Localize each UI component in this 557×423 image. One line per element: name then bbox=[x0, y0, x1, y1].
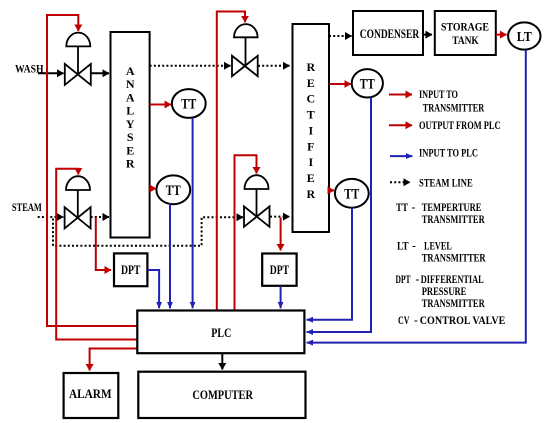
wire DPT2 to PLC blue bbox=[280, 286, 282, 309]
svg-text:-: - bbox=[414, 315, 418, 327]
control valve CV1 (wash) bbox=[65, 33, 91, 85]
svg-text:TRANSMITTER: TRANSMITTER bbox=[422, 214, 486, 226]
wire PLC output to CV4 red bbox=[235, 155, 257, 310]
transmitter TT4 bbox=[335, 179, 369, 208]
svg-text:DIFFERENTIAL: DIFFERENTIAL bbox=[421, 274, 484, 286]
svg-text:INPUT TO: INPUT TO bbox=[419, 89, 458, 101]
control valve CV4 (steam to rectifier) bbox=[244, 175, 270, 227]
transmitter TT2 bbox=[156, 175, 190, 204]
svg-text:TRANSMITTER: TRANSMITTER bbox=[422, 252, 486, 264]
svg-text:COMPUTER: COMPUTER bbox=[192, 388, 253, 402]
svg-text:R: R bbox=[306, 60, 315, 74]
wire PLC output to alarm red bbox=[90, 349, 138, 371]
wire CV3 to rectifier dotted bbox=[258, 65, 290, 67]
column RECTIFIER bbox=[293, 24, 330, 232]
svg-text:PLC: PLC bbox=[211, 325, 231, 340]
svg-text:STEAM: STEAM bbox=[12, 200, 42, 214]
legend arrow steam line dotted bbox=[390, 181, 410, 183]
svg-text:E: E bbox=[126, 143, 134, 157]
wire valve CV1 to analyser bbox=[91, 72, 109, 74]
svg-text:TT: TT bbox=[396, 202, 408, 214]
box DPT2 bbox=[262, 254, 296, 286]
svg-text:I: I bbox=[308, 123, 313, 137]
svg-text:A: A bbox=[126, 64, 135, 78]
svg-text:Y: Y bbox=[126, 117, 135, 131]
transmitter LT bbox=[508, 22, 540, 49]
svg-text:LEVEL: LEVEL bbox=[424, 240, 452, 252]
svg-text:LT: LT bbox=[397, 240, 409, 252]
svg-text:L: L bbox=[126, 104, 134, 118]
svg-text:E: E bbox=[307, 76, 315, 90]
box ALARM bbox=[64, 373, 119, 418]
svg-text:TEMPERTURE: TEMPERTURE bbox=[422, 202, 482, 214]
transmitter TT3 bbox=[352, 69, 383, 97]
svg-text:I: I bbox=[308, 155, 313, 169]
legend arrow input to PLC blue bbox=[390, 155, 412, 157]
svg-text:DPT: DPT bbox=[270, 263, 290, 277]
wire wash feed line bbox=[38, 72, 64, 74]
control valve CV3 bbox=[232, 24, 258, 76]
svg-text:R: R bbox=[306, 187, 315, 201]
wire PLC to computer bbox=[221, 353, 223, 369]
wire rectifier to TT3 red bbox=[329, 83, 351, 85]
box CONDENSER bbox=[353, 11, 423, 55]
wire TT1 to PLC blue bbox=[192, 118, 194, 309]
wire CV4 to rectifier dotted bbox=[270, 216, 290, 218]
svg-text:TT: TT bbox=[360, 76, 375, 92]
box STORAGE TANK bbox=[435, 11, 496, 55]
wire TT2 to PLC blue bbox=[169, 204, 171, 309]
control valve CV2 (steam) bbox=[65, 176, 91, 228]
svg-text:OUTPUT FROM PLC: OUTPUT FROM PLC bbox=[419, 120, 501, 132]
svg-text:CONTROL VALVE: CONTROL VALVE bbox=[420, 315, 506, 327]
wire LT to PLC blue bbox=[307, 50, 526, 343]
wire PLC output to CV3 red bbox=[217, 12, 245, 311]
svg-text:-: - bbox=[416, 274, 420, 286]
wire storage tank to LT red bbox=[496, 34, 507, 36]
svg-text:E: E bbox=[307, 171, 315, 185]
wire TT3 to PLC blue bbox=[307, 97, 371, 332]
legend arrow input to transmitter red bbox=[389, 94, 412, 96]
svg-text:S: S bbox=[127, 130, 134, 144]
wire condenser to storage tank bbox=[423, 34, 432, 36]
transmitter TT1 bbox=[172, 89, 206, 118]
column ANALYSER bbox=[111, 32, 150, 238]
wire analyser top vapour dotted to CV3 bbox=[150, 65, 231, 67]
svg-text:INPUT TO PLC: INPUT TO PLC bbox=[419, 148, 478, 160]
wire PLC output to CV2 red bbox=[56, 169, 137, 340]
wire TT4 to PLC blue bbox=[307, 207, 352, 319]
svg-text:R: R bbox=[126, 157, 135, 171]
wire rectifier to TT4 red bbox=[329, 189, 334, 191]
wire analyser to TT2 red bbox=[150, 188, 156, 190]
svg-text:TT: TT bbox=[166, 183, 181, 199]
wire DPT1 to PLC blue bbox=[148, 270, 160, 308]
box COMPUTER bbox=[138, 372, 305, 418]
svg-text:CV: CV bbox=[398, 315, 410, 327]
wire analyser to TT1 red bbox=[150, 104, 171, 106]
svg-text:ALARM: ALARM bbox=[69, 387, 112, 401]
svg-text:TT: TT bbox=[344, 186, 359, 202]
svg-text:TANK: TANK bbox=[452, 33, 479, 47]
svg-text:TRANSMITTER: TRANSMITTER bbox=[423, 102, 485, 114]
svg-text:STORAGE: STORAGE bbox=[441, 19, 489, 33]
svg-text:A: A bbox=[126, 90, 135, 104]
wire steam branch dotted (to CV4) bbox=[53, 217, 243, 246]
svg-text:TT: TT bbox=[181, 97, 196, 113]
svg-text:TRANSMITTER: TRANSMITTER bbox=[422, 298, 486, 310]
wire steam tap to DPT2 red bbox=[280, 218, 282, 251]
svg-text:PRESSURE: PRESSURE bbox=[422, 286, 467, 298]
svg-text:CONDENSER: CONDENSER bbox=[360, 27, 420, 41]
svg-text:-: - bbox=[412, 202, 416, 214]
legend arrow output from PLC red bbox=[389, 124, 412, 126]
controller PLC bbox=[137, 311, 304, 354]
svg-text:C: C bbox=[306, 92, 315, 106]
svg-text:DPT: DPT bbox=[121, 263, 141, 277]
svg-text:LT: LT bbox=[517, 30, 533, 45]
wire steam tap to DPT1 red bbox=[96, 218, 111, 271]
svg-text:T: T bbox=[307, 108, 315, 122]
wire valve CV2 to analyser dotted bbox=[91, 216, 109, 218]
wire steam feed dotted bbox=[38, 216, 64, 218]
svg-text:N: N bbox=[126, 77, 135, 91]
svg-text:F: F bbox=[307, 139, 314, 153]
wire rectifier to condenser dotted bbox=[329, 35, 352, 37]
svg-text:-: - bbox=[412, 240, 416, 252]
svg-text:DPT: DPT bbox=[396, 274, 411, 286]
wire PLC output to CV1 red bbox=[47, 15, 137, 326]
box DPT1 bbox=[114, 253, 147, 286]
svg-text:STEAM LINE: STEAM LINE bbox=[419, 178, 473, 190]
